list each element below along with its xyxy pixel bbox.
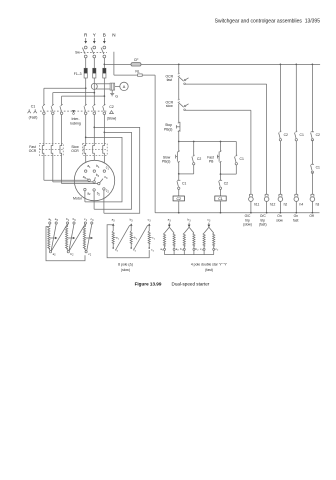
caption O/C trip slow <box>243 214 252 226</box>
svg-text:fast: fast <box>293 218 298 222</box>
winding diagram 1 b coil <box>66 224 68 251</box>
svg-text:C2: C2 <box>197 157 201 161</box>
winding diagram 3 star bar <box>165 254 214 256</box>
contactor C1 contact pole 2 <box>51 104 54 114</box>
svg-text:2: 2 <box>153 250 155 252</box>
winding diagram 1 c top terminal 2 <box>90 217 94 224</box>
figure caption <box>135 281 210 286</box>
stop push button <box>176 122 180 132</box>
motor label <box>73 197 83 201</box>
wire C2 pole R below contact <box>85 115 87 144</box>
svg-text:8 pole (Δ): 8 pole (Δ) <box>118 262 133 266</box>
wire h3 column upper <box>311 64 313 131</box>
svg-text:h2: h2 <box>284 203 288 207</box>
wire fast PB down <box>220 162 222 175</box>
wire slow branch B to motor <box>103 155 105 170</box>
test block for ammeter <box>110 83 115 90</box>
svg-text:3: 3 <box>149 220 151 222</box>
winding diagram 3 b coil 2 <box>193 233 195 250</box>
winding diagram 1 a bottom terminal <box>49 251 56 257</box>
svg-text:Motor: Motor <box>73 197 83 201</box>
auxiliary contact C2 lamp <box>279 131 288 141</box>
node B fast tap <box>104 95 106 97</box>
svg-text:CF: CF <box>134 58 139 62</box>
svg-text:3: 3 <box>92 220 94 222</box>
contactor C1 label <box>31 105 36 109</box>
svg-text:R: R <box>84 32 88 37</box>
wire h3 column lower <box>311 172 313 194</box>
winding diagram 2 a terminal label <box>112 218 116 223</box>
winding diagram 2 delta diagonal 1 <box>116 225 130 249</box>
wire Y tap around motor to c2 <box>94 127 139 213</box>
winding diagram 1 c inner diagonal <box>87 224 92 250</box>
supply phase B label <box>103 32 106 37</box>
wire R fuse to contact <box>85 78 87 105</box>
lamp h11 O/C trip slow <box>249 194 254 213</box>
winding diagram 2 c supply arrow <box>148 223 151 228</box>
lamp h12 label <box>270 203 276 207</box>
winding diagram 1 a inner diagonal <box>51 224 56 250</box>
wire neutral to NL <box>114 74 137 76</box>
wire neutral vertical <box>154 75 156 213</box>
svg-text:C2: C2 <box>224 182 228 186</box>
winding diagram 3 c bottom terminal labels <box>200 247 219 252</box>
wire h4 column upper <box>295 64 297 131</box>
wire coil C1 to neutral <box>220 201 222 214</box>
svg-text:3: 3 <box>169 220 171 222</box>
winding diagram 1 b top terminal 2 <box>73 217 77 224</box>
wire B switch to fuse <box>103 58 105 68</box>
svg-text:C2: C2 <box>109 105 114 109</box>
supply phase R incoming arrow <box>84 38 87 44</box>
winding diagram 3 a terminal label <box>168 218 172 223</box>
winding diagram 2 a coil <box>112 228 114 248</box>
svg-text:2: 2 <box>217 250 219 252</box>
winding diagram 3 a coil 1 <box>163 233 165 250</box>
svg-text:2: 2 <box>135 250 137 252</box>
node R fast tap <box>85 87 87 89</box>
winding diagram 2 a bottom node <box>112 247 118 252</box>
winding diagram 3 b star drops <box>184 250 194 254</box>
wire fast branch 3 below OCR <box>61 155 63 183</box>
coil C2 <box>173 196 184 201</box>
winding diagram 2 b terminal label <box>130 218 134 223</box>
svg-text:C2: C2 <box>316 133 320 137</box>
interlock contact C1 normally-closed <box>177 180 186 189</box>
svg-text:2: 2 <box>90 255 92 257</box>
slow PB label <box>162 155 171 163</box>
winding diagram 1 b inner diagonal <box>69 224 74 250</box>
wire coil C2 to neutral <box>178 201 180 214</box>
node control distribution left <box>178 141 180 143</box>
contactor C2 contact pole R <box>84 104 87 114</box>
winding diagram 2 c tap mark <box>149 236 156 241</box>
svg-text:1: 1 <box>136 238 138 240</box>
wire test block to ammeter <box>115 85 120 87</box>
motor terminal c2 <box>103 188 110 194</box>
lamp h2 label <box>284 203 288 207</box>
wire slow branch R to motor <box>85 155 87 170</box>
wire h2 column lower <box>279 141 281 194</box>
lamp h4 On fast <box>294 194 299 213</box>
wire h2 column upper <box>279 64 281 131</box>
contactor C2 (Slow) label <box>107 117 117 121</box>
svg-text:2: 2 <box>72 255 74 257</box>
motor terminal a2 <box>84 188 91 196</box>
node h4 supply <box>295 64 297 66</box>
winding diagram 3 a coil 2 <box>173 233 175 250</box>
contactor C1 contact pole 3 <box>60 104 63 114</box>
winding diagram 3 a feed arrow <box>168 223 171 228</box>
winding diagram 2 c coil <box>148 228 150 248</box>
overload relay Fast OCR label <box>29 145 37 153</box>
svg-text:PB(s): PB(s) <box>164 127 172 131</box>
interlock contact C2 normally-closed <box>219 180 228 189</box>
winding diagram 2 a supply arrow <box>112 223 115 228</box>
svg-text:C1: C1 <box>182 182 186 186</box>
fuse F Y phase <box>93 68 96 78</box>
winding diagram 1 left rail <box>46 227 85 261</box>
svg-text:OCR: OCR <box>29 149 37 153</box>
svg-text:3: 3 <box>57 220 59 222</box>
wire C2 aux drop <box>193 142 195 156</box>
wire control column mid2 <box>178 104 180 123</box>
svg-text:C1: C1 <box>31 105 36 109</box>
svg-text:(fast): (fast) <box>205 268 213 272</box>
winding diagram 3 a bottom terminal labels <box>160 247 179 252</box>
overload trip contact OCR slow <box>178 99 189 111</box>
svg-text:slow: slow <box>276 218 283 222</box>
winding diagram 1 a coil <box>48 224 50 251</box>
svg-text:1: 1 <box>68 220 70 222</box>
wire CT secondary upper <box>96 83 110 85</box>
neutral link NL <box>137 74 156 76</box>
winding diagram 2 left rail <box>107 225 149 258</box>
contactor C1 (Fast) label <box>29 116 38 120</box>
winding diagram 2 b tap mark <box>131 236 138 241</box>
wire dist to fast PB <box>220 142 222 152</box>
wire C2 aux to join <box>179 165 194 174</box>
interlock dashed line <box>40 110 107 112</box>
winding diagram 2 caption <box>118 262 133 272</box>
caption Off <box>309 214 313 218</box>
svg-text:F1–3: F1–3 <box>74 72 82 76</box>
wire join to C1 interlock <box>178 174 180 180</box>
svg-text:(slow): (slow) <box>243 222 252 226</box>
supply phase R label <box>84 32 88 37</box>
wire R switch to fuse <box>85 58 87 68</box>
winding diagram 3 c terminal label <box>207 218 211 223</box>
contactor C1 double-star symbol <box>28 109 37 113</box>
node Y fast tap <box>93 92 95 94</box>
svg-text:C1: C1 <box>300 133 304 137</box>
wire fast branch 2 below OCR <box>52 155 54 182</box>
winding diagram 2 b coil <box>130 228 132 248</box>
wire control distribution line <box>179 141 237 143</box>
wire B tap to C1 column <box>62 96 105 105</box>
Slow OCR heater element Y <box>93 143 95 155</box>
Fast OCR heater element 1 <box>42 143 44 155</box>
overload relay Slow OCR box <box>83 143 108 155</box>
caption On slow <box>276 214 283 222</box>
svg-text:G: G <box>115 95 118 99</box>
svg-text:(Slow): (Slow) <box>107 117 117 121</box>
supply phase B incoming arrow <box>103 38 106 44</box>
winding diagram 2 b supply arrow <box>130 223 133 228</box>
lamp h11 label <box>254 203 259 207</box>
page header text <box>215 19 321 25</box>
winding diagram 2 b bottom node <box>130 247 136 252</box>
ground G <box>110 90 118 99</box>
winding diagram 3 c feed arrow <box>208 223 211 228</box>
wire B fuse to contact <box>103 78 105 105</box>
fast PB label <box>207 155 214 163</box>
svg-text:(slow): (slow) <box>121 268 130 272</box>
wire Y fuse to contact <box>93 78 95 105</box>
wire b2 down <box>93 191 95 209</box>
wire stop to slow PB <box>178 142 180 152</box>
contactor C2 contact pole Y <box>93 104 96 114</box>
svg-text:NL: NL <box>135 70 139 74</box>
svg-text:fast: fast <box>167 78 173 82</box>
wire a2 down <box>84 191 86 202</box>
Slow OCR heater element B <box>103 143 105 155</box>
svg-text:3: 3 <box>189 220 191 222</box>
svg-text:Switchgear and controlgear ass: Switchgear and controlgear assemblies 13… <box>215 19 321 25</box>
supply phase Y label <box>93 32 96 37</box>
winding diagram 3 b split <box>184 227 194 233</box>
svg-text:3: 3 <box>131 220 133 222</box>
wire C1 pole 3 to OCR <box>61 115 63 144</box>
overload relay Slow OCR label <box>71 145 79 153</box>
motor circle <box>74 160 114 200</box>
winding diagram 3 a split <box>165 227 175 233</box>
winding diagram 1 a top terminal 2 <box>55 217 59 224</box>
svg-text:3: 3 <box>74 220 76 222</box>
svg-text:C2: C2 <box>176 197 181 201</box>
contactor C2 label <box>109 105 114 109</box>
node R slow tap <box>85 137 87 139</box>
wire R tap to C1 column <box>44 88 86 105</box>
lamp h2 On slow <box>278 194 283 213</box>
wire control column mid3 <box>178 132 180 142</box>
winding diagram 1 chain diagonal 2 <box>69 224 85 251</box>
svg-text:1: 1 <box>154 238 156 240</box>
motor terminal b2 <box>93 189 101 197</box>
motor terminal c3 <box>98 175 108 185</box>
supply neutral N label <box>112 32 115 37</box>
svg-text:2: 2 <box>117 250 119 252</box>
svg-text:2: 2 <box>197 250 199 252</box>
winding diagram 2 c terminal label <box>148 218 152 223</box>
switch Sw interlink dashed line <box>81 52 108 54</box>
coil C1 <box>215 196 226 201</box>
wire C2 pole Y below contact <box>93 115 95 144</box>
node B slow tap <box>104 132 106 134</box>
wire C1 pole 2 to OCR <box>52 115 54 144</box>
interlock latch symbol <box>72 110 75 114</box>
overload trip contact OCR fast <box>178 73 189 85</box>
interlocking label <box>70 117 81 125</box>
wire C1 aux drop <box>235 142 237 156</box>
svg-text:h11: h11 <box>254 203 259 207</box>
svg-text:C1: C1 <box>316 166 320 170</box>
svg-text:h12: h12 <box>270 203 276 207</box>
fuse CF <box>131 63 141 66</box>
winding diagram 3 c coil 2 <box>213 233 215 250</box>
svg-text:h3: h3 <box>316 203 320 207</box>
wire slow branch Y to motor <box>93 155 95 170</box>
node distribution fast PB <box>220 141 222 143</box>
supply phase Y incoming arrow <box>93 38 96 44</box>
winding diagram 1 b top terminal 1 <box>66 217 70 224</box>
auxiliary contact C1 normally-closed lamp <box>311 164 320 173</box>
winding diagram 1 b bottom terminal <box>67 251 74 257</box>
motor terminal a1 <box>85 164 92 172</box>
ammeter A <box>120 82 128 90</box>
node control line to OCR column <box>178 64 180 66</box>
wire B tap around motor to b2 <box>94 132 131 209</box>
svg-text:1: 1 <box>118 238 120 240</box>
winding diagram 3 c coil 1 <box>203 233 205 250</box>
wire join to C2 interlock <box>220 174 222 180</box>
wire fast branch 1 below OCR <box>43 155 45 180</box>
winding diagram 1 a top terminal 1 <box>48 217 52 224</box>
wire h4 column lower <box>295 141 297 194</box>
svg-text:PB(s): PB(s) <box>162 160 170 164</box>
switch Sw pole R <box>82 46 87 58</box>
wire OCR fast lamp feed <box>185 84 266 194</box>
stop PB label <box>164 123 172 131</box>
motor terminal b1 <box>93 164 100 172</box>
svg-text:N: N <box>112 32 115 37</box>
winding diagram 1 b tap arrow <box>68 237 75 239</box>
svg-text:(Fast): (Fast) <box>29 116 38 120</box>
svg-text:PB: PB <box>209 160 214 164</box>
wire fast feed 1 into motor <box>44 179 88 181</box>
overload relay Fast OCR box <box>39 143 63 155</box>
fuse group label F1-3 <box>74 72 82 76</box>
lamp h4 label <box>300 203 304 207</box>
wire C1 pole 1 to OCR <box>43 115 45 144</box>
switch Sw pole B <box>101 46 106 58</box>
contactor C2 contact pole B <box>103 104 106 114</box>
svg-text:C1: C1 <box>240 157 244 161</box>
winding diagram 1 c coil <box>83 224 85 251</box>
auxiliary contact C1 hold-in <box>235 155 244 165</box>
wire fast feed 3 into motor <box>62 183 98 185</box>
auxiliary contact C2 hold-in <box>192 155 201 165</box>
winding diagram 3 b bottom terminal labels <box>180 247 199 252</box>
svg-text:1: 1 <box>86 220 88 222</box>
neutral link NL label <box>135 70 139 74</box>
svg-text:B: B <box>103 32 106 37</box>
wire R tap around motor to a2 <box>85 137 122 202</box>
wire c2 down <box>103 190 105 213</box>
slow push button <box>176 151 180 163</box>
motor terminal b3 <box>93 173 100 183</box>
node fast branch join <box>220 173 222 175</box>
node slow branch join <box>178 173 180 175</box>
motor terminal c1 <box>103 166 109 173</box>
motor terminal a3 <box>83 175 91 181</box>
auxiliary contact C2 normally-closed lamp <box>311 132 320 141</box>
svg-text:locking: locking <box>70 121 81 125</box>
svg-text:4 pole double star ‘Y’ ‘Y’: 4 pole double star ‘Y’ ‘Y’ <box>191 262 227 266</box>
node Y slow tap <box>93 127 95 129</box>
fast push button <box>217 151 221 163</box>
node distribution C2 aux <box>193 141 195 143</box>
svg-text:Y: Y <box>93 32 96 37</box>
svg-text:C2: C2 <box>284 133 288 137</box>
caption O/C trip fast <box>259 214 267 226</box>
winding diagram 1 c tap arrow <box>86 237 93 239</box>
winding diagram 3 b terminal label <box>187 218 191 223</box>
svg-text:Sw: Sw <box>75 51 80 55</box>
winding diagram 3 c split <box>204 227 214 233</box>
svg-text:(fast): (fast) <box>259 222 267 226</box>
wire Y switch to fuse <box>93 58 95 68</box>
fuse CF label <box>134 58 139 62</box>
winding diagram 3 c star drops <box>204 250 214 254</box>
wire control supply line <box>104 63 320 65</box>
svg-text:3: 3 <box>209 220 211 222</box>
auxiliary contact C1 lamp <box>295 131 304 141</box>
winding diagram 1 a tap arrow <box>50 237 57 239</box>
svg-text:2: 2 <box>54 255 56 257</box>
fuse F R phase <box>84 68 87 78</box>
svg-text:A: A <box>123 85 126 89</box>
Fast OCR heater element 2 <box>51 143 53 155</box>
winding diagram 1 c bottom terminal <box>85 251 92 257</box>
svg-text:OCR: OCR <box>71 149 79 153</box>
winding diagram 2 c bottom node <box>148 247 154 252</box>
wire CT secondary lower <box>96 88 110 90</box>
wire Y tap to C1 column <box>53 93 95 105</box>
wire neutral N drop <box>113 52 115 75</box>
Slow OCR heater element R <box>84 143 86 155</box>
switch Sw pole Y <box>91 46 96 58</box>
wire control column mid1 <box>178 78 180 100</box>
wire control column upper <box>178 64 180 73</box>
fuse F B phase <box>103 68 106 78</box>
svg-text:h4: h4 <box>300 203 304 207</box>
Fast OCR heater element 3 <box>60 143 62 155</box>
winding diagram 3 a star drops <box>165 250 175 254</box>
wire C1 aux to join <box>221 165 237 174</box>
svg-text:3: 3 <box>113 220 115 222</box>
node h2 supply <box>280 64 282 66</box>
contactor C1 contact pole 1 <box>42 104 45 114</box>
winding diagram 2 a-phase top stub <box>110 224 113 226</box>
node B-phase control tap <box>104 64 106 66</box>
winding diagram 2 delta diagonal 2 <box>134 225 148 249</box>
winding diagram 3 caption <box>191 262 227 272</box>
wire slow PB down <box>178 162 180 174</box>
wire C2 pole B below contact <box>103 115 105 144</box>
svg-text:slow: slow <box>166 104 173 108</box>
svg-text:Dual-speed starter: Dual-speed starter <box>172 281 210 286</box>
lamp h3 label <box>316 203 320 207</box>
OCR slow label <box>166 100 174 108</box>
wire to coil C1 <box>220 189 222 196</box>
winding diagram 3 b coil 1 <box>183 233 185 250</box>
svg-text:C1: C1 <box>218 197 223 201</box>
wire h3 column middle <box>311 140 313 165</box>
winding diagram 1 c top terminal 1 <box>84 217 88 224</box>
winding diagram 2 a tap mark <box>113 236 120 241</box>
OCR fast label <box>166 74 174 82</box>
